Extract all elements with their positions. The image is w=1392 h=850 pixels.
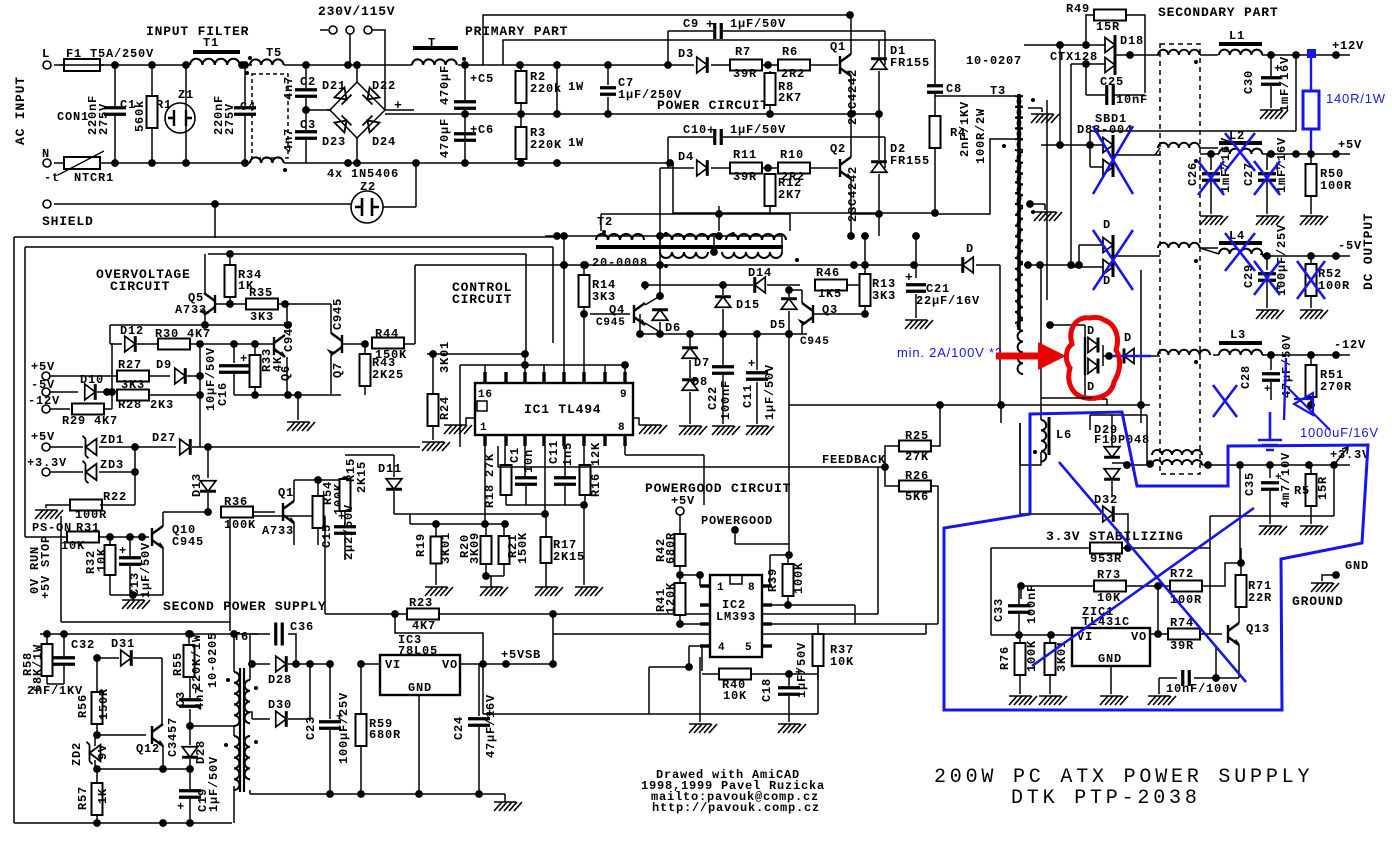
svg-text:1mF/16V: 1mF/16V (1278, 56, 1292, 112)
capacitor C21 (906, 285, 926, 292)
capacitor C15 (334, 527, 356, 534)
wire (1270, 55, 1272, 76)
svg-text:R72: R72 (1170, 567, 1194, 581)
junction (580, 261, 588, 269)
phase dot (224, 743, 228, 747)
wire (699, 575, 701, 586)
svg-text:22µF/16V: 22µF/16V (916, 294, 980, 308)
svg-text:10-0205: 10-0205 (206, 632, 220, 688)
diode D13 (200, 481, 216, 492)
wire L rail (54, 64, 190, 66)
ground 3K01 (1039, 696, 1067, 705)
wire D29 top (1090, 414, 1147, 416)
junction (997, 401, 1005, 409)
wire (1102, 345, 1104, 366)
wire (788, 311, 790, 334)
junction (656, 232, 664, 240)
wire (1041, 144, 1103, 146)
wire (63, 666, 65, 684)
wire (96, 815, 98, 823)
wire control left (414, 265, 416, 344)
junction (686, 330, 694, 338)
wire (151, 128, 153, 163)
T6 core (239, 668, 241, 792)
wire (1158, 678, 1160, 694)
IC2 notch (730, 575, 742, 584)
junction (479, 660, 487, 668)
wire (229, 258, 231, 265)
svg-text:D27: D27 (152, 431, 176, 445)
resistor R57 (92, 783, 103, 815)
L3 core (1219, 341, 1262, 345)
wire (520, 159, 522, 163)
wire (163, 511, 208, 513)
wire (1084, 375, 1086, 399)
winding -5V (1158, 243, 1200, 248)
wire (789, 289, 802, 291)
junction (656, 330, 664, 338)
pin top 1 (504, 372, 507, 383)
junction (129, 591, 137, 599)
wire (254, 387, 256, 395)
junction (501, 520, 509, 528)
junction (1146, 460, 1154, 468)
phase dot (1002, 144, 1006, 148)
wire (789, 214, 791, 231)
svg-text:Q1: Q1 (278, 486, 294, 500)
comparator IC2 LM393 box (710, 575, 762, 657)
phase dot T1 (245, 71, 249, 75)
svg-text:1µF/50V: 1µF/50V (207, 756, 221, 812)
ground C18 (778, 724, 806, 733)
wire (504, 794, 506, 802)
capacitor C18 (778, 688, 800, 695)
svg-text:10nF/100V: 10nF/100V (1166, 682, 1238, 696)
wire (109, 537, 111, 545)
wire (1262, 354, 1350, 356)
svg-text:D7: D7 (694, 356, 710, 370)
junction (93, 819, 101, 827)
wire (1024, 264, 1079, 266)
wire (659, 265, 661, 296)
wire Q5 emitter up (204, 254, 206, 293)
diode D24 (363, 116, 380, 133)
wire VI (991, 634, 1072, 636)
wire (305, 110, 307, 130)
svg-text:+: + (795, 666, 803, 680)
wire (344, 479, 346, 480)
junction (1067, 261, 1075, 269)
wire (1079, 244, 1103, 246)
resistor R23 (407, 609, 439, 620)
wire (149, 394, 200, 396)
junction (553, 232, 561, 240)
wire (1090, 166, 1103, 168)
wire (1200, 153, 1219, 155)
wire T2 top bus (601, 213, 790, 215)
resistor R4 (930, 116, 941, 148)
diode D c (1103, 238, 1113, 253)
transistor Q7 (331, 333, 342, 355)
junction (461, 61, 469, 69)
wire (1266, 256, 1268, 270)
transistor Q13 (1228, 623, 1239, 645)
resistor R58 (42, 644, 53, 676)
svg-text:560k: 560k (133, 100, 147, 132)
terminal +5V pg (676, 507, 684, 515)
svg-text:680R: 680R (664, 532, 678, 564)
wire pin8 up (769, 555, 771, 586)
ground C30 (1260, 110, 1288, 119)
blue wire -12V (1112, 355, 1151, 358)
wire left border (13, 237, 15, 823)
junction (226, 300, 234, 308)
phase dot (248, 56, 252, 60)
wire emitter bus (640, 333, 807, 335)
wire bottom rail (465, 162, 673, 164)
wire (1266, 282, 1268, 308)
capacitor C35 (1261, 483, 1279, 490)
junction (186, 819, 194, 827)
terminal +3.3V (1330, 461, 1338, 469)
blue X (1213, 385, 1237, 417)
svg-text:DC OUTPUT: DC OUTPUT (1361, 213, 1376, 290)
wire to powergood (625, 454, 704, 456)
pin top 2 (523, 372, 526, 383)
svg-text:C3457: C3457 (166, 717, 180, 757)
junction (1082, 41, 1090, 49)
wire (1269, 465, 1271, 478)
resistor R52 (1306, 264, 1317, 296)
junction (604, 110, 612, 118)
junction (676, 620, 684, 628)
svg-text:A733: A733 (262, 524, 294, 538)
junction (685, 663, 693, 671)
wire (1210, 154, 1212, 170)
junction bridge top (353, 61, 361, 69)
svg-text:C11: C11 (547, 440, 561, 464)
T3 secondary 3 (1018, 208, 1023, 262)
T5 bottom winding (250, 157, 284, 163)
svg-text:+5V: +5V (671, 494, 695, 508)
wire (503, 564, 505, 576)
T2 secondary 1 (660, 252, 708, 258)
junction (549, 660, 557, 668)
svg-text:Q4: Q4 (609, 303, 625, 317)
resistor R25 (899, 441, 931, 452)
wire (1262, 153, 1350, 155)
wire (252, 663, 270, 665)
transistor Q12 (152, 724, 163, 746)
wire Q12 collector (161, 658, 163, 724)
wire (1018, 586, 1020, 604)
wire (915, 236, 917, 278)
arrow +3.3V (1334, 447, 1348, 465)
wire (1210, 182, 1212, 214)
wire (114, 116, 116, 163)
junction (103, 388, 111, 396)
svg-text:C3: C3 (174, 691, 188, 707)
capacitor C1 (104, 108, 126, 115)
wire (723, 30, 885, 32)
phase dot (664, 264, 668, 268)
wire to R23 (324, 516, 326, 614)
svg-text:22R: 22R (1248, 591, 1272, 605)
wire R24 bus (427, 353, 526, 355)
svg-text:D22: D22 (372, 79, 396, 93)
wire left border2 (24, 247, 26, 537)
wire (1086, 94, 1105, 96)
svg-text:100K: 100K (792, 562, 806, 594)
wire (364, 344, 366, 354)
wire (1262, 255, 1350, 257)
diode D18 b (1105, 58, 1115, 73)
wire right border vertical (552, 247, 554, 343)
wire (305, 65, 307, 88)
wire (1046, 100, 1048, 300)
diode D5 (781, 299, 797, 310)
pin IC2 left (700, 603, 710, 606)
wire (189, 677, 191, 697)
svg-text:16: 16 (478, 389, 493, 401)
svg-text:C22: C22 (706, 386, 720, 410)
wire -5 rectified (1113, 255, 1160, 257)
svg-text:2K25: 2K25 (372, 368, 404, 382)
pin top 0 (483, 372, 486, 383)
svg-text:NTCR1: NTCR1 (74, 171, 114, 185)
resistor R5 (1306, 474, 1317, 506)
junction (1236, 461, 1244, 469)
pin top 5 (582, 372, 585, 383)
wire (668, 136, 713, 138)
wire bus down (788, 334, 790, 405)
diode D30 (276, 711, 287, 727)
wire (1040, 398, 1042, 420)
resistor R43 (360, 354, 371, 386)
diode D18 cathode bar (1114, 35, 1117, 75)
svg-text:1W: 1W (568, 80, 584, 94)
svg-text:POWERGOOD: POWERGOOD (701, 514, 773, 528)
svg-text:39R: 39R (733, 170, 757, 184)
wire (885, 467, 899, 486)
diode D7 (682, 348, 698, 359)
wire (233, 344, 235, 363)
ground R76 (1009, 696, 1037, 705)
resistor R29 (72, 404, 104, 415)
junction (251, 340, 259, 348)
svg-text:D28: D28 (194, 740, 208, 764)
wire (187, 375, 200, 377)
svg-text:270R: 270R (1320, 380, 1352, 394)
wire y405 (789, 404, 1001, 406)
resistor R27 (117, 371, 149, 382)
terminal +5V (42, 372, 50, 380)
svg-text:R19: R19 (414, 533, 428, 557)
junction (281, 300, 289, 308)
svg-text:15R: 15R (1096, 20, 1120, 34)
svg-text:min. 2A/100V *2: min. 2A/100V *2 (897, 345, 1003, 360)
svg-text:ZD1: ZD1 (100, 433, 124, 447)
diode D32 (1103, 506, 1114, 522)
wire bottom to T3 return (673, 163, 935, 213)
wire (648, 667, 650, 714)
wire (850, 214, 852, 236)
wire link down (199, 344, 201, 447)
wire (344, 511, 346, 525)
diode D r3 (1124, 349, 1134, 364)
resistor R19 (431, 537, 442, 564)
wire (137, 343, 158, 345)
wire Q3 emitter (801, 325, 803, 334)
svg-text:100R: 100R (1318, 279, 1350, 293)
wire (97, 657, 119, 659)
capacitor C26 (1202, 174, 1220, 181)
wire (132, 595, 134, 600)
wire (756, 334, 758, 370)
wire (96, 724, 98, 735)
wire bridge top (356, 65, 358, 82)
wire pin1 down (484, 446, 486, 524)
svg-text:Q3: Q3 (822, 303, 838, 317)
wire (1078, 245, 1080, 265)
junction (656, 292, 664, 300)
wire (877, 467, 879, 614)
wire (100, 504, 135, 506)
junction (517, 110, 525, 118)
phase dot (1033, 450, 1037, 454)
T2 primary winding 3 (726, 234, 786, 240)
wire (208, 446, 420, 448)
wire (810, 167, 838, 169)
svg-text:D18: D18 (1120, 34, 1144, 48)
resistor R35 (246, 299, 278, 310)
wire (466, 418, 475, 425)
resistor R8 (765, 73, 776, 105)
diode SBD1 a (1103, 138, 1113, 153)
svg-text:39R: 39R (1170, 639, 1194, 653)
junction (93, 654, 101, 662)
wire top loop 2 (503, 40, 881, 65)
resistor R15 (340, 479, 351, 511)
wire (1114, 94, 1145, 96)
wire (1200, 54, 1218, 56)
resistor R34 (225, 265, 236, 297)
junction (1075, 261, 1083, 269)
IC1 notch (477, 401, 487, 411)
wire (934, 40, 936, 84)
wire (345, 454, 394, 456)
wire IC1 top bus (460, 364, 625, 366)
junction C1 top (111, 61, 119, 69)
winding +12V (1158, 50, 1200, 55)
junction (1204, 461, 1212, 469)
resistor 3K01 (1045, 643, 1056, 675)
junction (159, 819, 167, 827)
wire (1127, 464, 1152, 466)
wire (1089, 145, 1091, 167)
wire block border v (60, 516, 62, 622)
diode D28 (276, 656, 287, 672)
junction (696, 571, 704, 579)
junction (875, 110, 883, 118)
wire long vertical (788, 405, 790, 555)
svg-text:2R2: 2R2 (781, 67, 805, 81)
svg-text:2K15: 2K15 (355, 461, 369, 493)
junction (560, 261, 568, 269)
phase dot (254, 740, 258, 744)
wire (1018, 614, 1020, 635)
svg-text:100R: 100R (75, 508, 107, 522)
wire (1155, 148, 1160, 155)
junction (1126, 51, 1134, 59)
wire selector down (349, 34, 351, 65)
wire (185, 126, 187, 163)
junction (785, 551, 793, 559)
svg-text:ZD2: ZD2 (70, 742, 84, 766)
diode D12 (125, 336, 136, 352)
wire (884, 137, 886, 168)
wire (1047, 324, 1085, 326)
wire (1070, 64, 1072, 267)
wire Q10 collector (162, 512, 164, 526)
wire (788, 696, 790, 722)
wire row505 (506, 504, 585, 506)
wire (1310, 397, 1312, 405)
svg-text:R24: R24 (438, 396, 452, 420)
junction R1 top (148, 61, 156, 69)
junction (785, 330, 793, 338)
wire (762, 623, 938, 625)
svg-text:R28 2K3: R28 2K3 (118, 398, 174, 412)
pin IC2 left (700, 644, 710, 647)
transistor Q3 (802, 303, 813, 325)
svg-text:T2: T2 (597, 215, 613, 229)
wire Q1 emitter (850, 76, 852, 114)
svg-text:L3: L3 (1230, 328, 1246, 342)
wire (1126, 585, 1170, 587)
wire (864, 306, 866, 314)
ground R5 (1300, 526, 1328, 535)
svg-text:220K: 220K (530, 138, 562, 152)
wire 2nd psu top bus (40, 633, 258, 635)
L6 core (1048, 417, 1051, 455)
wire (284, 162, 348, 164)
blue X over C27 (1254, 161, 1280, 195)
wire (254, 343, 256, 355)
svg-text:100R: 100R (1320, 179, 1352, 193)
wire (810, 64, 838, 66)
ground R17 (535, 587, 563, 596)
wire (497, 446, 499, 467)
T3 aux winding (1015, 150, 1020, 323)
diode D snubber (963, 257, 974, 273)
wire (114, 65, 116, 106)
wire control right (525, 254, 527, 354)
svg-text:Q7: Q7 (331, 362, 345, 378)
wire pin6 down (583, 446, 585, 465)
wire (1270, 355, 1272, 370)
svg-text:R11: R11 (733, 148, 757, 162)
wire (208, 253, 526, 255)
svg-text:10K: 10K (723, 689, 747, 703)
svg-text:230V/115V: 230V/115V (318, 4, 395, 19)
capacitor C29 (1258, 274, 1276, 281)
svg-text:R56: R56 (76, 694, 90, 718)
svg-text:27K: 27K (905, 450, 929, 464)
wire (325, 613, 407, 615)
junction (314, 476, 322, 484)
svg-text:R10: R10 (780, 148, 804, 162)
